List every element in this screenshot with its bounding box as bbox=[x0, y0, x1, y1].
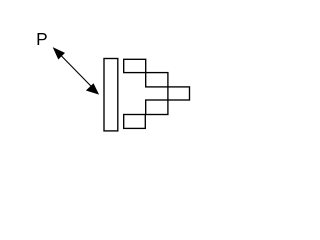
step block E (bottom) bbox=[124, 115, 146, 129]
force arrow head lower bbox=[86, 83, 99, 94]
step block B bbox=[146, 73, 168, 87]
step block D bbox=[146, 100, 168, 115]
plate (tall rectangle) bbox=[104, 59, 118, 131]
step block A (top) bbox=[124, 59, 146, 72]
step block C (middle right) bbox=[168, 87, 190, 100]
force arrow shaft bbox=[60, 55, 91, 87]
svg-text:P: P bbox=[36, 29, 48, 49]
force arrow head upper bbox=[53, 47, 65, 59]
